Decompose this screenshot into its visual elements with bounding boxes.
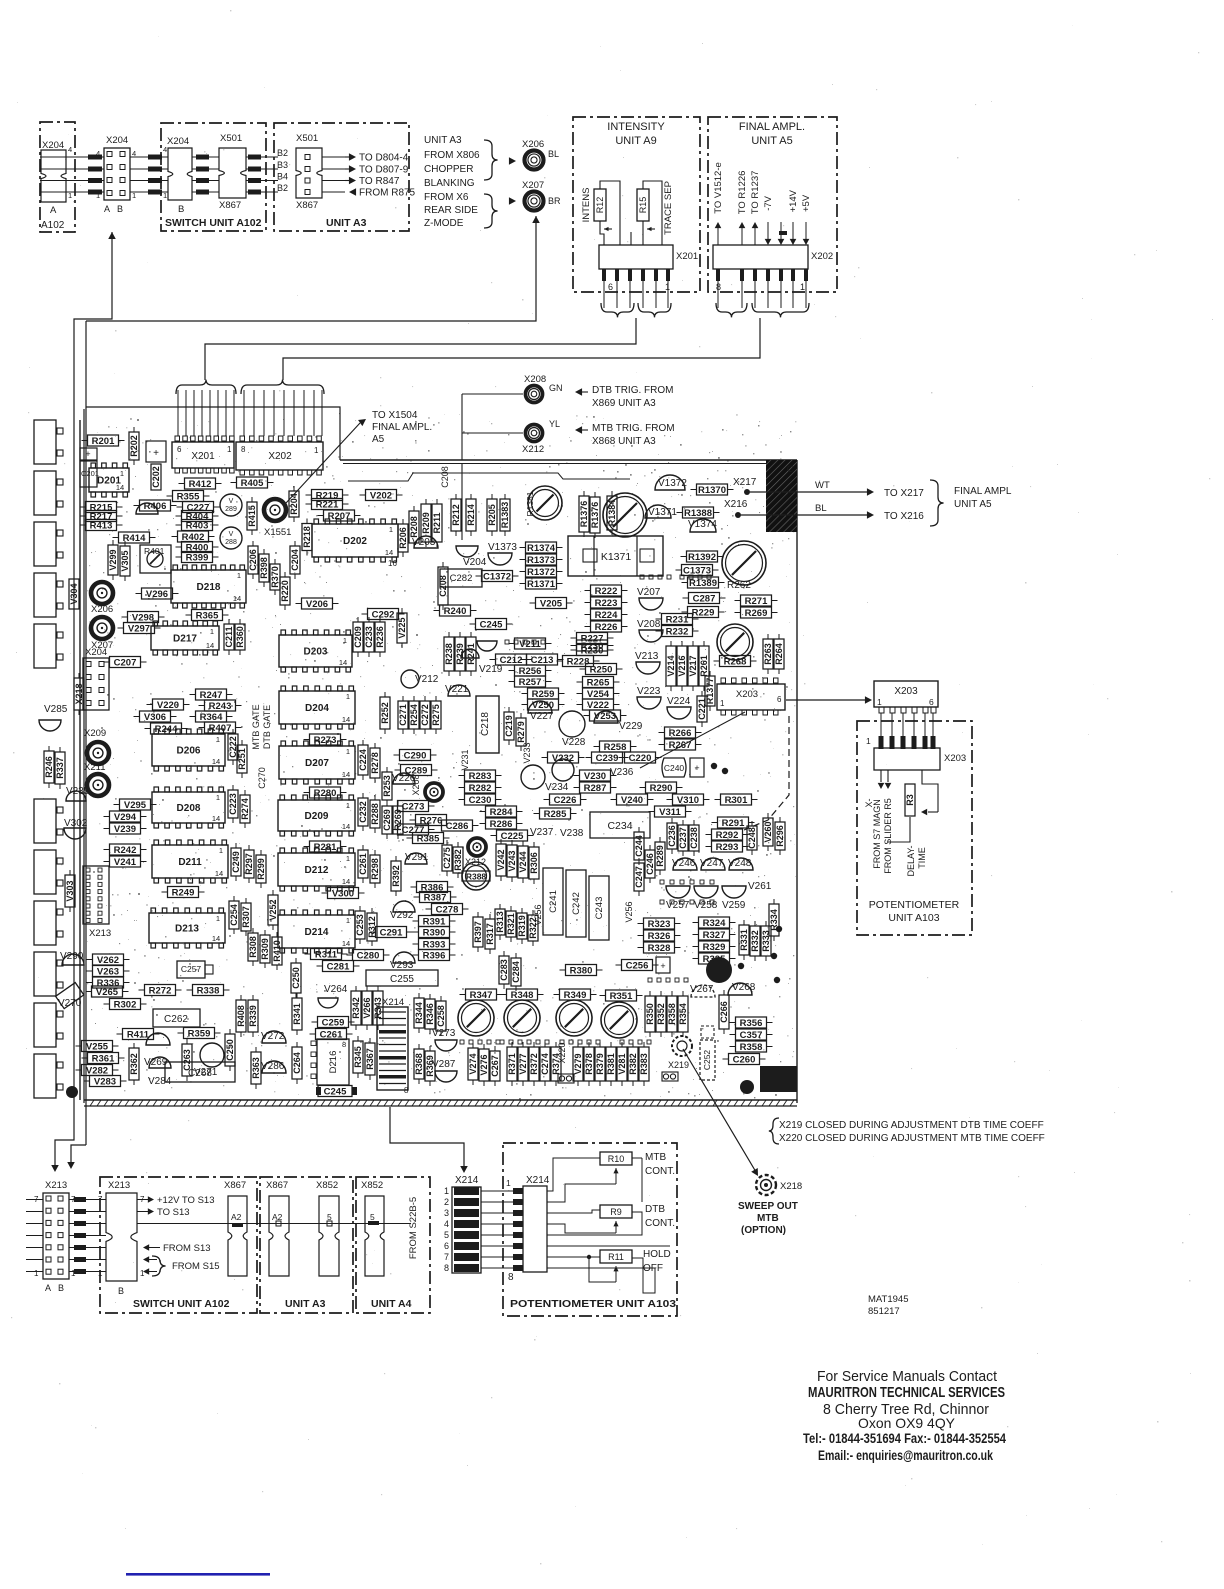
svg-text:C292: C292 xyxy=(372,609,395,620)
svg-text:FROM SLIDER R5: FROM SLIDER R5 xyxy=(883,798,893,874)
svg-text:X869 UNIT A3: X869 UNIT A3 xyxy=(592,398,656,409)
svg-text:V208: V208 xyxy=(637,619,661,630)
svg-text:R354: R354 xyxy=(678,1003,688,1025)
svg-text:C237: C237 xyxy=(678,827,688,849)
svg-text:C238: C238 xyxy=(689,827,699,849)
svg-text:R370: R370 xyxy=(270,566,280,588)
svg-text:R368: R368 xyxy=(414,1053,424,1075)
svg-text:R324: R324 xyxy=(703,918,726,929)
svg-text:R280: R280 xyxy=(314,788,337,799)
svg-text:C283: C283 xyxy=(499,959,509,981)
svg-text:CONT.: CONT. xyxy=(645,1218,675,1229)
svg-text:X852: X852 xyxy=(361,1180,383,1191)
svg-text:X867: X867 xyxy=(296,200,318,211)
svg-text:R11: R11 xyxy=(608,1252,624,1262)
svg-text:X202: X202 xyxy=(268,451,292,462)
svg-text:14: 14 xyxy=(233,594,241,603)
svg-text:TO R847: TO R847 xyxy=(359,176,400,187)
svg-text:R1388: R1388 xyxy=(684,508,712,519)
svg-text:R232: R232 xyxy=(666,626,689,637)
svg-text:C266: C266 xyxy=(719,1001,729,1023)
svg-text:TO D807-9: TO D807-9 xyxy=(359,165,409,176)
svg-text:MTB GATE: MTB GATE xyxy=(251,704,261,749)
svg-text:V238: V238 xyxy=(560,828,584,839)
svg-text:TO R1237: TO R1237 xyxy=(750,171,761,215)
svg-text:14: 14 xyxy=(385,548,393,557)
svg-text:UNIT A3: UNIT A3 xyxy=(326,217,367,229)
svg-text:X1551: X1551 xyxy=(264,527,291,538)
svg-text:V246: V246 xyxy=(672,858,696,869)
svg-text:4: 4 xyxy=(68,145,72,154)
svg-text:X208: X208 xyxy=(524,374,546,385)
svg-text:MAT1945: MAT1945 xyxy=(868,1294,908,1305)
svg-text:D202: D202 xyxy=(343,536,367,547)
svg-text:R242: R242 xyxy=(114,845,137,856)
svg-text:V1372: V1372 xyxy=(658,478,687,489)
svg-text:V256: V256 xyxy=(624,901,634,922)
svg-text:V269: V269 xyxy=(144,1057,168,1068)
svg-text:X204: X204 xyxy=(42,140,64,151)
svg-text:X216: X216 xyxy=(724,499,748,510)
svg-text:R251: R251 xyxy=(237,748,247,770)
svg-text:C275: C275 xyxy=(442,847,452,869)
svg-text:+14V: +14V xyxy=(788,189,799,212)
svg-text:C239: C239 xyxy=(596,753,619,764)
svg-text:R361: R361 xyxy=(92,1053,115,1064)
svg-text:V243: V243 xyxy=(507,850,517,871)
svg-text:V277: V277 xyxy=(518,1053,528,1074)
svg-text:R9: R9 xyxy=(610,1207,622,1217)
svg-text:B: B xyxy=(118,1286,124,1296)
svg-text:C278: C278 xyxy=(436,904,459,915)
svg-text:X206: X206 xyxy=(522,139,544,150)
svg-text:R331: R331 xyxy=(739,929,749,951)
svg-text:R360: R360 xyxy=(235,626,245,648)
svg-text:C284: C284 xyxy=(511,961,521,983)
svg-text:V279: V279 xyxy=(573,1053,583,1074)
svg-text:B: B xyxy=(178,204,184,215)
svg-text:14: 14 xyxy=(212,814,220,823)
svg-text:R396: R396 xyxy=(423,950,446,961)
svg-text:14: 14 xyxy=(342,715,350,724)
svg-text:R1370: R1370 xyxy=(698,485,726,496)
svg-text:TO D804-4: TO D804-4 xyxy=(359,153,409,164)
svg-text:R274: R274 xyxy=(240,798,250,820)
svg-text:V203: V203 xyxy=(412,537,436,548)
svg-text:V287: V287 xyxy=(432,1059,456,1070)
svg-text:8: 8 xyxy=(444,1263,449,1273)
svg-text:D209: D209 xyxy=(305,811,329,822)
svg-text:UNIT A3: UNIT A3 xyxy=(424,135,462,146)
svg-text:R321: R321 xyxy=(506,913,516,935)
svg-text:X219: X219 xyxy=(668,1060,689,1070)
svg-text:TO S13: TO S13 xyxy=(157,1207,190,1218)
svg-text:V286: V286 xyxy=(261,1061,285,1072)
svg-text:+: + xyxy=(660,961,665,971)
svg-text:C250: C250 xyxy=(225,1039,235,1061)
svg-text:+: + xyxy=(694,763,699,773)
svg-text:V229: V229 xyxy=(619,721,643,732)
svg-text:C212: C212 xyxy=(500,655,523,666)
svg-text:UNIT A103: UNIT A103 xyxy=(888,912,939,924)
svg-text:R333: R333 xyxy=(761,930,771,952)
svg-text:R299: R299 xyxy=(256,858,266,880)
svg-text:3: 3 xyxy=(444,1208,449,1218)
svg-text:V: V xyxy=(229,498,234,505)
svg-text:R399: R399 xyxy=(186,552,209,563)
svg-text:X214: X214 xyxy=(526,1175,550,1186)
svg-text:D204: D204 xyxy=(305,703,329,714)
svg-text:V216: V216 xyxy=(677,655,687,676)
svg-text:R1376: R1376 xyxy=(579,501,589,528)
svg-text:R412: R412 xyxy=(189,479,212,490)
svg-text:V281: V281 xyxy=(617,1053,627,1074)
svg-text:C: C xyxy=(787,464,794,474)
svg-text:R264: R264 xyxy=(774,643,784,665)
svg-text:X207: X207 xyxy=(91,640,113,651)
svg-text:V261: V261 xyxy=(748,881,772,892)
svg-text:V242: V242 xyxy=(496,849,506,870)
svg-text:C249: C249 xyxy=(231,851,241,873)
svg-text:X203: X203 xyxy=(894,686,918,697)
svg-text:7: 7 xyxy=(444,1252,449,1262)
svg-text:R254: R254 xyxy=(409,704,419,726)
svg-text:FROM R875: FROM R875 xyxy=(359,188,416,199)
svg-text:UNIT A9: UNIT A9 xyxy=(615,135,656,147)
svg-text:1: 1 xyxy=(34,1269,39,1278)
svg-text:V214: V214 xyxy=(666,655,676,676)
svg-text:R1372: R1372 xyxy=(527,567,555,578)
svg-text:V241: V241 xyxy=(114,857,137,868)
svg-text:POTENTIOMETER UNIT A103: POTENTIOMETER UNIT A103 xyxy=(510,1298,676,1310)
svg-text:+: + xyxy=(85,449,90,459)
svg-text:V217: V217 xyxy=(688,655,698,676)
svg-text:FINAL AMPL: FINAL AMPL xyxy=(954,486,1012,497)
svg-text:14: 14 xyxy=(212,757,220,766)
svg-text:C220: C220 xyxy=(629,753,652,764)
svg-text:C256: C256 xyxy=(626,960,649,971)
svg-text:C236: C236 xyxy=(667,825,677,847)
svg-text:R231: R231 xyxy=(666,614,689,625)
svg-text:BL: BL xyxy=(548,149,559,159)
svg-text:X213: X213 xyxy=(108,1180,130,1191)
svg-text:R356: R356 xyxy=(740,1018,763,1029)
svg-text:4: 4 xyxy=(444,1219,449,1229)
svg-text:1: 1 xyxy=(346,801,350,810)
svg-text:R297: R297 xyxy=(244,853,254,875)
svg-text:FROM S15: FROM S15 xyxy=(172,1261,220,1272)
svg-text:V300: V300 xyxy=(332,888,354,899)
svg-text:289: 289 xyxy=(225,506,237,513)
svg-text:R309: R309 xyxy=(260,938,270,960)
svg-text:V240: V240 xyxy=(621,795,643,806)
svg-text:DTB TRIG. FROM: DTB TRIG. FROM xyxy=(592,385,673,396)
svg-text:V263: V263 xyxy=(97,966,119,977)
svg-text:R269: R269 xyxy=(745,608,768,619)
svg-text:FINAL AMPL.: FINAL AMPL. xyxy=(739,121,805,133)
svg-text:R347: R347 xyxy=(470,990,493,1001)
svg-text:R261: R261 xyxy=(699,655,709,677)
svg-text:R332: R332 xyxy=(750,930,760,952)
svg-text:R292: R292 xyxy=(716,830,739,841)
svg-text:X868 UNIT A3: X868 UNIT A3 xyxy=(592,436,656,447)
svg-text:1: 1 xyxy=(800,282,805,292)
svg-text:TRACE SEP: TRACE SEP xyxy=(663,181,674,235)
svg-text:R392: R392 xyxy=(391,865,401,887)
svg-text:C209: C209 xyxy=(353,626,363,648)
svg-text:R414: R414 xyxy=(123,533,146,544)
svg-text:C286: C286 xyxy=(446,821,469,832)
svg-text:8: 8 xyxy=(508,1272,514,1283)
svg-text:V304: V304 xyxy=(69,583,79,604)
svg-text:TO X216: TO X216 xyxy=(884,511,924,522)
svg-text:R398: R398 xyxy=(259,557,269,579)
svg-text:C260: C260 xyxy=(733,1054,756,1065)
svg-text:C291: C291 xyxy=(380,927,403,938)
svg-text:R229: R229 xyxy=(692,607,715,618)
svg-text:C262: C262 xyxy=(164,1014,188,1025)
svg-text:R247: R247 xyxy=(200,690,223,701)
svg-text:+12V TO S13: +12V TO S13 xyxy=(157,1195,214,1206)
svg-text:1: 1 xyxy=(866,736,871,746)
svg-text:B2: B2 xyxy=(277,148,288,158)
svg-text:V234: V234 xyxy=(545,782,569,793)
svg-text:1: 1 xyxy=(219,846,223,855)
svg-text:R323: R323 xyxy=(648,919,671,930)
svg-text:C218: C218 xyxy=(480,712,491,736)
svg-text:B: B xyxy=(117,204,123,214)
svg-text:R1376: R1376 xyxy=(590,502,600,529)
svg-text:R390: R390 xyxy=(423,927,446,938)
svg-text:V297: V297 xyxy=(128,623,150,634)
svg-text:1: 1 xyxy=(140,1269,145,1278)
svg-text:X213: X213 xyxy=(89,928,111,939)
svg-text:YL: YL xyxy=(549,419,560,429)
svg-text:B3: B3 xyxy=(277,160,288,170)
svg-text:C247: C247 xyxy=(634,866,644,888)
svg-text:R410: R410 xyxy=(272,940,282,962)
svg-text:R405: R405 xyxy=(241,478,264,489)
svg-text:+5V: +5V xyxy=(801,194,812,212)
svg-text:V299: V299 xyxy=(108,549,118,570)
svg-text:C207: C207 xyxy=(114,657,137,668)
svg-text:V227: V227 xyxy=(530,711,554,722)
svg-text:-7V: -7V xyxy=(763,195,774,210)
svg-text:R401: R401 xyxy=(144,546,165,556)
svg-text:V248: V248 xyxy=(728,858,752,869)
svg-text:X867: X867 xyxy=(219,200,241,211)
svg-text:C253: C253 xyxy=(355,914,365,936)
svg-text:POTENTIOMETER: POTENTIOMETER xyxy=(869,899,960,911)
svg-text:V222: V222 xyxy=(587,700,609,711)
svg-text:C219: C219 xyxy=(504,715,514,737)
svg-text:+: + xyxy=(153,448,159,459)
svg-text:C271: C271 xyxy=(398,704,408,726)
svg-text:C273: C273 xyxy=(402,801,425,812)
svg-text:C241: C241 xyxy=(548,890,559,913)
svg-text:X201: X201 xyxy=(191,451,215,462)
svg-text:X204: X204 xyxy=(106,135,128,146)
svg-text:UNIT A5: UNIT A5 xyxy=(751,135,792,147)
svg-text:R236: R236 xyxy=(375,626,385,648)
svg-text:C245: C245 xyxy=(480,619,503,630)
svg-text:MTB TRIG. FROM: MTB TRIG. FROM xyxy=(592,423,675,434)
svg-text:V220: V220 xyxy=(157,700,179,711)
svg-text:R301: R301 xyxy=(725,795,748,806)
svg-text:V244: V244 xyxy=(518,851,528,872)
svg-text:R265: R265 xyxy=(587,677,610,688)
svg-text:R284: R284 xyxy=(490,807,513,818)
svg-text:R278: R278 xyxy=(370,752,380,774)
svg-text:R259: R259 xyxy=(532,689,555,700)
svg-text:C240: C240 xyxy=(664,763,685,773)
svg-text:X220: X220 xyxy=(557,1042,567,1063)
svg-text:C224: C224 xyxy=(358,749,368,771)
svg-text:C269: C269 xyxy=(382,809,392,831)
svg-text:V236: V236 xyxy=(610,767,634,778)
svg-text:B2: B2 xyxy=(277,183,288,193)
svg-text:R411: R411 xyxy=(127,1029,150,1040)
svg-text:V262: V262 xyxy=(97,955,119,966)
svg-text:1: 1 xyxy=(343,636,347,645)
svg-text:X202: X202 xyxy=(811,251,833,262)
svg-text:MAURITRON TECHNICAL SERVICES: MAURITRON TECHNICAL SERVICES xyxy=(808,1384,1005,1401)
svg-text:V303: V303 xyxy=(65,880,75,901)
svg-text:C211: C211 xyxy=(224,626,234,647)
svg-text:R372: R372 xyxy=(529,1053,539,1075)
svg-text:R238: R238 xyxy=(444,643,454,665)
svg-text:C255: C255 xyxy=(390,974,414,985)
svg-text:6: 6 xyxy=(177,445,182,454)
svg-text:V259: V259 xyxy=(722,900,746,911)
svg-text:D207: D207 xyxy=(305,758,329,769)
svg-text:R352: R352 xyxy=(656,1003,666,1025)
svg-text:V202: V202 xyxy=(370,490,392,501)
svg-text:R209: R209 xyxy=(421,512,431,534)
svg-text:V247: V247 xyxy=(700,858,724,869)
svg-text:R308: R308 xyxy=(248,936,258,958)
svg-text:R382: R382 xyxy=(453,849,463,871)
svg-text:C357: C357 xyxy=(740,1030,763,1041)
svg-text:V311: V311 xyxy=(659,807,681,818)
svg-text:R222: R222 xyxy=(595,586,618,597)
svg-text:C280: C280 xyxy=(357,950,380,961)
svg-text:R345: R345 xyxy=(353,1046,363,1068)
svg-text:C204: C204 xyxy=(290,549,300,571)
svg-text:X217: X217 xyxy=(733,477,757,488)
svg-text:MTB: MTB xyxy=(645,1152,666,1163)
svg-text:R12: R12 xyxy=(595,197,605,214)
svg-text:V204: V204 xyxy=(463,557,487,568)
svg-text:6: 6 xyxy=(608,282,613,292)
svg-text:V283: V283 xyxy=(94,1076,116,1087)
svg-text:HOLD: HOLD xyxy=(643,1249,671,1260)
svg-text:V285: V285 xyxy=(44,704,68,715)
svg-text:V1371: V1371 xyxy=(648,507,677,518)
svg-text:R338: R338 xyxy=(197,985,220,996)
svg-text:(OPTION): (OPTION) xyxy=(741,1225,786,1236)
svg-text:FROM S7 MAGN: FROM S7 MAGN xyxy=(872,799,882,869)
svg-text:V270: V270 xyxy=(58,998,82,1009)
svg-text:R1373: R1373 xyxy=(527,555,555,566)
svg-text:R256: R256 xyxy=(519,666,542,677)
svg-text:X213: X213 xyxy=(45,1180,67,1191)
svg-text:R326: R326 xyxy=(648,931,671,942)
svg-text:1: 1 xyxy=(506,1178,511,1188)
svg-text:GN: GN xyxy=(549,383,563,393)
svg-text:X219 CLOSED DURING ADJUSTME: X219 CLOSED DURING ADJUSTMENT DTB TIME C… xyxy=(779,1120,1044,1131)
svg-text:R302: R302 xyxy=(114,999,137,1010)
svg-text:R363: R363 xyxy=(251,1057,261,1079)
svg-text:Z-MODE: Z-MODE xyxy=(424,218,464,229)
svg-text:C272: C272 xyxy=(420,704,430,726)
svg-text:X220 CLOSED DURING ADJUSTME: X220 CLOSED DURING ADJUSTMENT MTB TIME C… xyxy=(779,1133,1045,1144)
svg-text:MTB: MTB xyxy=(757,1213,779,1224)
svg-text:R383: R383 xyxy=(639,1053,649,1075)
svg-text:R298: R298 xyxy=(370,858,380,880)
svg-text:R288: R288 xyxy=(370,803,380,825)
svg-text:1: 1 xyxy=(346,854,350,863)
svg-text:D218: D218 xyxy=(197,582,221,593)
svg-text:V1374: V1374 xyxy=(688,519,717,530)
svg-text:R218: R218 xyxy=(302,526,312,548)
svg-text:C248: C248 xyxy=(747,827,757,849)
svg-text:5: 5 xyxy=(370,1212,375,1222)
svg-text:R208: R208 xyxy=(409,516,419,538)
svg-text:1: 1 xyxy=(346,747,350,756)
svg-text:A: A xyxy=(45,1283,51,1293)
svg-text:C206: C206 xyxy=(248,549,258,571)
svg-text:R1383: R1383 xyxy=(500,502,510,529)
svg-text:R355: R355 xyxy=(177,491,200,502)
svg-text:X867: X867 xyxy=(224,1180,246,1191)
svg-text:Tel:- 01844-351694 Fax:- 01844: Tel:- 01844-351694 Fax:- 01844-352554 xyxy=(803,1430,1006,1446)
svg-text:V212: V212 xyxy=(415,674,439,685)
svg-text:14: 14 xyxy=(339,658,347,667)
svg-text:R307: R307 xyxy=(241,906,251,928)
svg-text:C226: C226 xyxy=(554,795,577,806)
svg-text:16: 16 xyxy=(388,559,397,568)
svg-text:R346: R346 xyxy=(425,1003,435,1025)
svg-text:A102: A102 xyxy=(41,220,65,231)
svg-text:R382: R382 xyxy=(628,1053,638,1075)
svg-text:R364: R364 xyxy=(200,712,223,723)
svg-text:V219: V219 xyxy=(479,664,503,675)
svg-text:Email:- enquiries@mauritron.co: Email:- enquiries@mauritron.co.uk xyxy=(818,1447,993,1463)
svg-text:C257: C257 xyxy=(181,964,202,974)
svg-text:V294: V294 xyxy=(114,812,137,823)
svg-text:V305: V305 xyxy=(120,550,130,571)
svg-text:1: 1 xyxy=(216,735,220,744)
svg-text:R379: R379 xyxy=(595,1053,605,1075)
svg-text:C242: C242 xyxy=(571,892,582,915)
svg-text:14: 14 xyxy=(342,770,350,779)
svg-text:851217: 851217 xyxy=(868,1306,900,1317)
svg-text:C259: C259 xyxy=(322,1017,345,1028)
svg-text:R1381: R1381 xyxy=(525,491,535,516)
svg-text:TIME: TIME xyxy=(917,847,927,869)
svg-text:R367: R367 xyxy=(365,1048,375,1070)
svg-text:TO V1512-e: TO V1512-e xyxy=(713,162,724,214)
svg-text:R201: R201 xyxy=(92,436,115,447)
svg-text:UNIT A5: UNIT A5 xyxy=(954,499,992,510)
svg-text:R271: R271 xyxy=(745,596,768,607)
svg-text:D211: D211 xyxy=(178,857,202,868)
svg-text:BL: BL xyxy=(815,503,827,514)
svg-text:X214: X214 xyxy=(455,1175,479,1186)
svg-text:R358: R358 xyxy=(667,1003,677,1025)
svg-text:R1371: R1371 xyxy=(527,579,556,590)
